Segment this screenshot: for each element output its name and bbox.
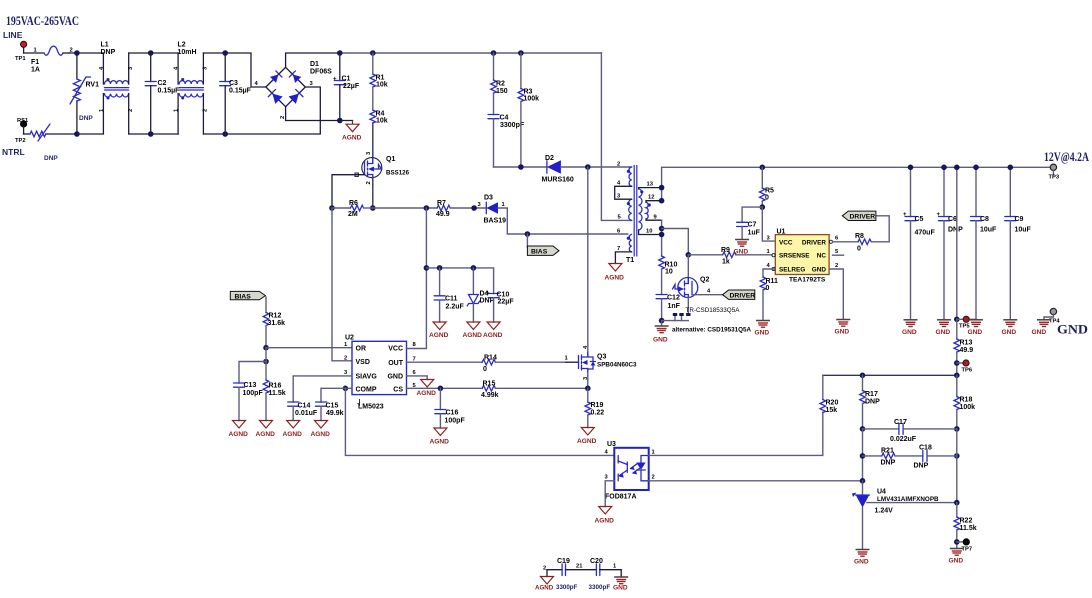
svg-text:R1: R1 <box>376 75 385 82</box>
svg-text:C19: C19 <box>557 558 570 565</box>
wire secondary top to 12V rail <box>662 167 1051 200</box>
svg-text:R13: R13 <box>960 340 973 347</box>
svg-text:+: + <box>333 77 337 83</box>
svg-text:DNP: DNP <box>881 460 896 467</box>
wire U2 GND pin6 to AGND <box>407 376 428 380</box>
resistor R22 11.5k <box>954 503 977 548</box>
fuse F1 1A <box>31 46 73 73</box>
pin 12 stub <box>646 201 662 203</box>
diode D2 MURS160 <box>542 155 574 184</box>
wire branch to Q2 drain <box>662 229 689 255</box>
svg-text:0: 0 <box>765 195 769 202</box>
output capacitor C6 DNP <box>937 167 964 319</box>
ground GND at C7 <box>734 240 750 256</box>
svg-text:+: + <box>486 291 490 297</box>
wire clamp row to D2 <box>494 166 547 168</box>
resistor R19 0.22 <box>585 388 604 427</box>
svg-text:C5: C5 <box>915 216 924 223</box>
svg-text:U1: U1 <box>777 229 786 236</box>
svg-text:1.24V: 1.24V <box>875 508 894 515</box>
resistor R17 DNP <box>860 375 880 429</box>
svg-text:SPB04N60C3: SPB04N60C3 <box>597 362 637 369</box>
svg-text:L2: L2 <box>178 42 186 49</box>
svg-text:DNP: DNP <box>44 155 58 162</box>
svg-text:C2: C2 <box>158 80 167 87</box>
svg-text:BIAS: BIAS <box>531 249 548 256</box>
resistor R16 11.5k <box>263 380 286 421</box>
svg-text:TP2: TP2 <box>15 138 26 144</box>
svg-text:49.9k: 49.9k <box>326 410 344 417</box>
wire R8 up to DRIVER tag <box>876 216 889 242</box>
svg-text:2.2uF: 2.2uF <box>446 304 465 311</box>
resistor R10 10 <box>659 256 678 295</box>
test point TP7 <box>957 539 972 553</box>
svg-text:AGND: AGND <box>483 332 503 339</box>
capacitor C16 100pF <box>435 388 466 428</box>
svg-text:D2: D2 <box>545 155 554 162</box>
svg-text:R3: R3 <box>524 89 533 96</box>
resistor R9 1k <box>688 247 772 266</box>
svg-text:U3: U3 <box>607 441 616 448</box>
svg-text:GND: GND <box>1057 323 1088 337</box>
transistor Q2 CSD18533Q5A <box>673 255 710 314</box>
svg-text:1nF: 1nF <box>668 303 681 310</box>
svg-text:AGND: AGND <box>463 332 483 339</box>
svg-text:T1: T1 <box>626 257 634 264</box>
svg-text:R22: R22 <box>960 518 973 525</box>
svg-text:21: 21 <box>576 564 583 570</box>
resistor R20 15k <box>820 375 838 414</box>
capacitor C11 2.2uF <box>434 268 464 322</box>
svg-text:DRIVER: DRIVER <box>850 214 876 221</box>
node pin10 <box>659 232 665 238</box>
node C17 right <box>954 426 960 432</box>
wire C19 to C20 <box>566 569 597 571</box>
svg-text:3300pF: 3300pF <box>589 584 611 591</box>
svg-text:Q2: Q2 <box>700 277 709 284</box>
svg-text:1uF: 1uF <box>748 230 761 237</box>
ground GND at C12 <box>653 321 669 344</box>
transistor Q3 SPB04N60C3 <box>565 167 638 380</box>
ground GND at U1 pin2 <box>835 320 851 336</box>
svg-text:COMP: COMP <box>356 386 377 393</box>
node R9 junction <box>686 252 692 258</box>
svg-text:C17: C17 <box>894 419 907 426</box>
svg-text:U2: U2 <box>345 335 354 342</box>
svg-text:AGND: AGND <box>577 438 597 445</box>
resistor R3 100k <box>518 53 539 167</box>
svg-text:VSD: VSD <box>356 359 370 366</box>
svg-text:BAS19: BAS19 <box>484 218 507 225</box>
node R3 bottom <box>518 164 524 170</box>
svg-text:C13: C13 <box>244 382 257 389</box>
svg-text:2: 2 <box>128 109 134 112</box>
svg-text:C12: C12 <box>667 295 680 302</box>
capacitor C14 0.01uF <box>288 402 318 421</box>
ground GND at C5 <box>902 320 918 336</box>
wire R6 node to VSD <box>332 208 352 361</box>
ground AGND at C15 <box>311 421 331 439</box>
resistor R11 0 <box>760 269 778 320</box>
node U4 ref row <box>954 500 960 506</box>
ground AGND at R16 <box>256 421 276 439</box>
output capacitor C5 470uF <box>903 167 935 319</box>
svg-text:+: + <box>903 212 907 218</box>
Y-cap C20 3300pF <box>589 558 622 591</box>
svg-text:TP1: TP1 <box>15 56 26 62</box>
svg-text:C9: C9 <box>1015 216 1024 223</box>
node SR branch <box>659 226 665 232</box>
node junction RV1 bottom <box>74 131 80 137</box>
svg-text:4.99k: 4.99k <box>481 392 499 399</box>
wire L2 to C3 top then corner down to bridge <box>203 53 266 87</box>
thermistor RS1 DNP <box>24 124 77 162</box>
ground GND at TP4 <box>1032 320 1052 336</box>
pin 13 stub <box>639 188 662 189</box>
resistor R2 150 <box>491 53 508 95</box>
svg-text:RV1: RV1 <box>86 82 100 89</box>
node C2 top <box>148 50 154 56</box>
varistor RV1 <box>70 53 99 134</box>
svg-text:LINE: LINE <box>3 30 23 40</box>
pin 4-3 loop <box>615 186 632 199</box>
test point TP5 <box>957 316 976 329</box>
test point TP6 <box>957 360 973 374</box>
ground AGND at C1 <box>342 121 362 142</box>
ground AGND at C14 <box>283 421 303 439</box>
node C3 bottom <box>222 131 228 137</box>
svg-text:R6: R6 <box>349 200 358 207</box>
wire U3 pin2 to U4 node <box>649 480 863 482</box>
svg-text:100pF: 100pF <box>243 390 264 397</box>
node Q1 source junction <box>370 205 376 211</box>
svg-text:100pF: 100pF <box>445 418 466 425</box>
transistor Q1 BSS126 <box>362 151 410 185</box>
svg-text:31.6k: 31.6k <box>268 320 286 327</box>
svg-text:U4: U4 <box>877 489 886 496</box>
pin 7 stub <box>615 252 631 264</box>
svg-text:0.01uF: 0.01uF <box>295 410 318 417</box>
svg-text:R14: R14 <box>484 355 497 362</box>
node R21 right <box>954 453 960 459</box>
svg-text:BSS126: BSS126 <box>386 170 410 177</box>
svg-text:R17: R17 <box>865 391 878 398</box>
resistor R13 49.9 <box>954 319 973 375</box>
svg-text:DRIVER: DRIVER <box>802 239 827 246</box>
pin 10 stub <box>639 230 662 235</box>
svg-text:0: 0 <box>857 246 861 253</box>
svg-text:GND: GND <box>812 266 827 273</box>
svg-text:0: 0 <box>483 366 487 373</box>
node VCC row left <box>424 265 430 271</box>
wire top rail corner down to pin 5 <box>601 53 631 220</box>
svg-text:15k: 15k <box>826 407 838 414</box>
svg-text:AGND: AGND <box>535 585 554 592</box>
wire Q1 source row to R7 <box>373 207 437 209</box>
svg-text:R20: R20 <box>826 400 839 407</box>
svg-text:R10: R10 <box>665 262 678 269</box>
svg-text:470uF: 470uF <box>915 230 936 237</box>
inductor L1 common-mode choke DNP <box>99 42 134 135</box>
svg-text:SIAVG: SIAVG <box>356 374 378 381</box>
svg-text:D1: D1 <box>310 61 319 68</box>
capacitor C17 0.022uF <box>863 419 957 443</box>
svg-text:150: 150 <box>496 88 508 95</box>
wire Q1 source down <box>372 178 374 208</box>
svg-text:GND: GND <box>854 559 869 566</box>
svg-text:0.15µF: 0.15µF <box>229 88 252 95</box>
capacitor C12 1nF <box>656 295 681 321</box>
ground GND at C20 <box>613 577 628 592</box>
capacitor C2 0.15uF <box>145 53 180 134</box>
svg-text:R8: R8 <box>855 233 864 240</box>
resistor R14 0 <box>482 355 566 374</box>
node TP7 junction <box>954 539 960 545</box>
svg-text:C6: C6 <box>948 216 957 223</box>
wire bottom rail RV1 to L1 <box>77 133 104 135</box>
node C7 branch <box>760 204 766 210</box>
svg-text:GND: GND <box>734 249 749 256</box>
svg-text:AGND: AGND <box>595 518 615 525</box>
ground AGND at C16 <box>430 428 450 446</box>
wire VCC row <box>426 268 493 294</box>
node TP5 junction <box>954 317 960 323</box>
svg-text:NTRL: NTRL <box>2 147 25 157</box>
node R17 top <box>860 373 866 379</box>
node C1 bottom <box>337 118 343 124</box>
node C1 top <box>337 50 343 56</box>
svg-text:0.022uF: 0.022uF <box>890 436 917 443</box>
resistor R1 10k <box>370 53 388 89</box>
svg-text:C20: C20 <box>590 558 603 565</box>
svg-text:VCC: VCC <box>779 239 793 246</box>
net tag BIAS (R12) <box>230 291 265 300</box>
svg-text:C15: C15 <box>326 403 339 410</box>
svg-text:C4: C4 <box>500 115 509 122</box>
svg-text:SELREG: SELREG <box>779 266 805 273</box>
svg-text:100k: 100k <box>960 404 976 411</box>
svg-text:AGND: AGND <box>229 431 249 438</box>
svg-text:DNP: DNP <box>79 115 93 122</box>
svg-text:D3: D3 <box>484 195 493 202</box>
svg-text:100k: 100k <box>524 96 540 103</box>
svg-text:3300pF: 3300pF <box>556 584 578 591</box>
ground AGND at C11 <box>429 322 449 339</box>
wire R4 to Q1 drain <box>372 123 374 158</box>
svg-text:DNP: DNP <box>865 399 880 406</box>
svg-text:2: 2 <box>366 181 372 184</box>
svg-text:11.5k: 11.5k <box>269 390 286 397</box>
node pin12 <box>659 198 665 204</box>
transformer T1 <box>615 162 662 265</box>
svg-text:49.9: 49.9 <box>960 347 974 354</box>
diode D4 DNP zener <box>467 268 494 322</box>
node pin13 <box>659 185 665 191</box>
svg-text:DNP: DNP <box>948 227 963 234</box>
node BIAS tag stub <box>525 231 531 237</box>
svg-text:GND: GND <box>936 329 951 336</box>
node U3 pin2 row right <box>860 478 866 484</box>
svg-text:L1: L1 <box>101 42 109 49</box>
ground GND at U4 <box>854 550 870 566</box>
svg-text:AGND: AGND <box>430 439 450 446</box>
svg-text:R2: R2 <box>496 81 505 88</box>
wire Q2 gate to DRIVER tag <box>692 294 723 296</box>
svg-text:10: 10 <box>665 269 673 276</box>
svg-text:VCC: VCC <box>388 346 403 353</box>
wire R13 column top <box>956 167 958 319</box>
svg-text:GND: GND <box>902 329 917 336</box>
svg-text:R19: R19 <box>591 402 604 409</box>
svg-text:12: 12 <box>648 195 654 201</box>
node R18 top <box>954 373 960 379</box>
svg-text:2: 2 <box>203 109 209 112</box>
wire bridge bottom pin to C1 bottom and AGND <box>286 107 353 121</box>
wire bridge top pin to top rail <box>286 53 340 67</box>
svg-text:AGND: AGND <box>256 431 276 438</box>
svg-text:2: 2 <box>617 162 620 168</box>
node C13 branch <box>263 359 269 365</box>
wire R5 to U1 VCC <box>762 207 775 241</box>
wire Q3 source to R19 node <box>587 373 589 388</box>
svg-text:R11: R11 <box>766 278 779 285</box>
node TP6 junction <box>954 360 960 366</box>
wire U1 GND pin down <box>829 269 843 319</box>
svg-text:OR: OR <box>356 346 367 353</box>
wire CS pin5 to R15 <box>407 387 483 389</box>
node R21 left <box>860 453 866 459</box>
svg-text:OUT: OUT <box>388 360 404 367</box>
resistor R7 49.9 <box>436 200 450 218</box>
ground AGND at T1 pin 7 <box>605 264 625 282</box>
ground GND at R11 <box>755 321 771 337</box>
svg-text:Q3: Q3 <box>597 354 606 361</box>
svg-text:0.15µF: 0.15µF <box>158 88 181 95</box>
svg-text:NC: NC <box>817 253 827 260</box>
svg-text:LM5023: LM5023 <box>358 404 384 411</box>
wire U3 pin3 to AGND <box>605 481 614 507</box>
wire R18 col down <box>956 429 958 503</box>
node VCC drop junction <box>424 205 430 211</box>
ground GND at C8 <box>968 320 984 336</box>
capacitor C13 100pF <box>234 362 267 421</box>
node COMP <box>343 386 349 392</box>
svg-text:C16: C16 <box>446 410 459 417</box>
wire SIAVG pin3 <box>293 376 352 402</box>
wire COMP down to opto row <box>345 388 614 455</box>
wire L1 to C2 bottom <box>129 133 178 135</box>
wire U1 DRIVER pin to R8 <box>833 241 859 243</box>
node R5 top <box>760 165 766 171</box>
capacitor C10 22uF <box>486 291 514 322</box>
svg-text:C10: C10 <box>497 292 510 299</box>
node D3 anode pin 3 <box>471 205 477 211</box>
op-amp U1 TEA1792TS <box>767 229 840 284</box>
svg-text:TEA1792TS: TEA1792TS <box>789 277 826 284</box>
node R3 top <box>518 50 524 56</box>
svg-text:2M: 2M <box>348 211 358 218</box>
svg-text:12V@4.2A: 12V@4.2A <box>1044 150 1089 164</box>
svg-text:22µF: 22µF <box>343 83 360 90</box>
svg-text:AGND: AGND <box>311 431 331 438</box>
svg-text:10k: 10k <box>376 82 388 89</box>
svg-text:R12: R12 <box>269 313 282 320</box>
resistor R15 4.99k <box>481 381 588 400</box>
wire feedback top row <box>823 374 957 376</box>
pin 9 stub <box>646 219 662 220</box>
ground AGND at R19 <box>577 428 597 446</box>
shunt reference U4 LMV431AIMFXNOPB <box>852 481 957 549</box>
svg-text:R16: R16 <box>269 383 282 390</box>
node junction RV1 top <box>74 50 80 56</box>
svg-text:AGND: AGND <box>342 135 362 142</box>
resistor R18 100k <box>954 375 975 429</box>
svg-text:MURS160: MURS160 <box>542 177 574 184</box>
svg-text:1A: 1A <box>31 67 40 74</box>
svg-text:R5: R5 <box>765 188 774 195</box>
svg-text:DF06S: DF06S <box>310 69 332 76</box>
svg-text:AGND: AGND <box>429 332 449 339</box>
svg-text:FOD817A: FOD817A <box>605 494 637 501</box>
resistor R12 31.6k <box>263 297 285 348</box>
svg-text:C3: C3 <box>229 80 238 87</box>
ground GND at R22 <box>949 549 964 565</box>
svg-text:C14: C14 <box>298 403 311 410</box>
svg-text:alternative: CSD19531Q5A: alternative: CSD19531Q5A <box>672 327 752 334</box>
node R6 left <box>329 205 335 211</box>
capacitor C18 DNP <box>914 445 957 470</box>
inductor L2 10mH <box>174 42 209 135</box>
svg-text:1k: 1k <box>722 259 730 266</box>
svg-text:10k: 10k <box>376 118 388 125</box>
svg-text:GND: GND <box>613 585 628 592</box>
ground AGND at U2 pin6 <box>417 380 437 398</box>
node D4 top <box>471 265 477 271</box>
wire Q1 gate left <box>332 175 365 208</box>
svg-text:0: 0 <box>766 285 770 292</box>
svg-text:AGND: AGND <box>417 390 437 397</box>
svg-text:R4: R4 <box>376 111 385 118</box>
svg-text:49.9: 49.9 <box>436 211 450 218</box>
svg-text:C1: C1 <box>342 76 351 83</box>
ground AGND at C19 <box>535 577 554 592</box>
svg-text:GND: GND <box>1032 329 1047 336</box>
svg-text:2: 2 <box>652 475 655 481</box>
wire VCC pin8 up to bias rail <box>407 208 427 349</box>
svg-text:11.5k: 11.5k <box>960 525 977 532</box>
svg-text:C18: C18 <box>919 445 932 452</box>
ground AGND at D4 <box>463 322 483 339</box>
node R1 top <box>370 50 376 56</box>
svg-text:2: 2 <box>344 355 347 361</box>
svg-text:GND: GND <box>835 329 850 336</box>
svg-text:7: 7 <box>617 246 620 252</box>
svg-text:AGND: AGND <box>283 431 303 438</box>
svg-text:SRSENSE: SRSENSE <box>779 253 810 260</box>
svg-text:13: 13 <box>647 182 654 188</box>
svg-text:BIAS: BIAS <box>235 293 252 300</box>
svg-text:GND: GND <box>755 330 770 337</box>
ground GND at C6 <box>936 320 952 336</box>
svg-text:DRIVER: DRIVER <box>730 293 756 300</box>
svg-text:GND: GND <box>1002 329 1017 336</box>
ground GND at C9 <box>1002 320 1018 336</box>
svg-text:TP3: TP3 <box>1049 175 1060 181</box>
svg-text:GND: GND <box>387 374 403 381</box>
wire D2 to transformer pin 2 <box>561 166 632 168</box>
wire D3 to bias row <box>498 208 628 234</box>
test point TP4 <box>1044 308 1060 324</box>
